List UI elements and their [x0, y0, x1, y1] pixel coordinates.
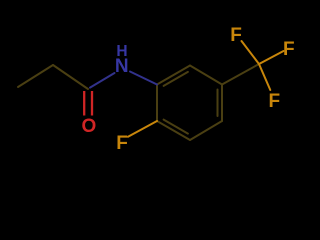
svg-text:F: F	[230, 25, 242, 46]
svg-text:N: N	[115, 56, 129, 77]
svg-text:O: O	[82, 116, 97, 137]
svg-text:F: F	[116, 133, 128, 154]
svg-text:F: F	[268, 91, 280, 112]
svg-text:F: F	[283, 39, 295, 60]
